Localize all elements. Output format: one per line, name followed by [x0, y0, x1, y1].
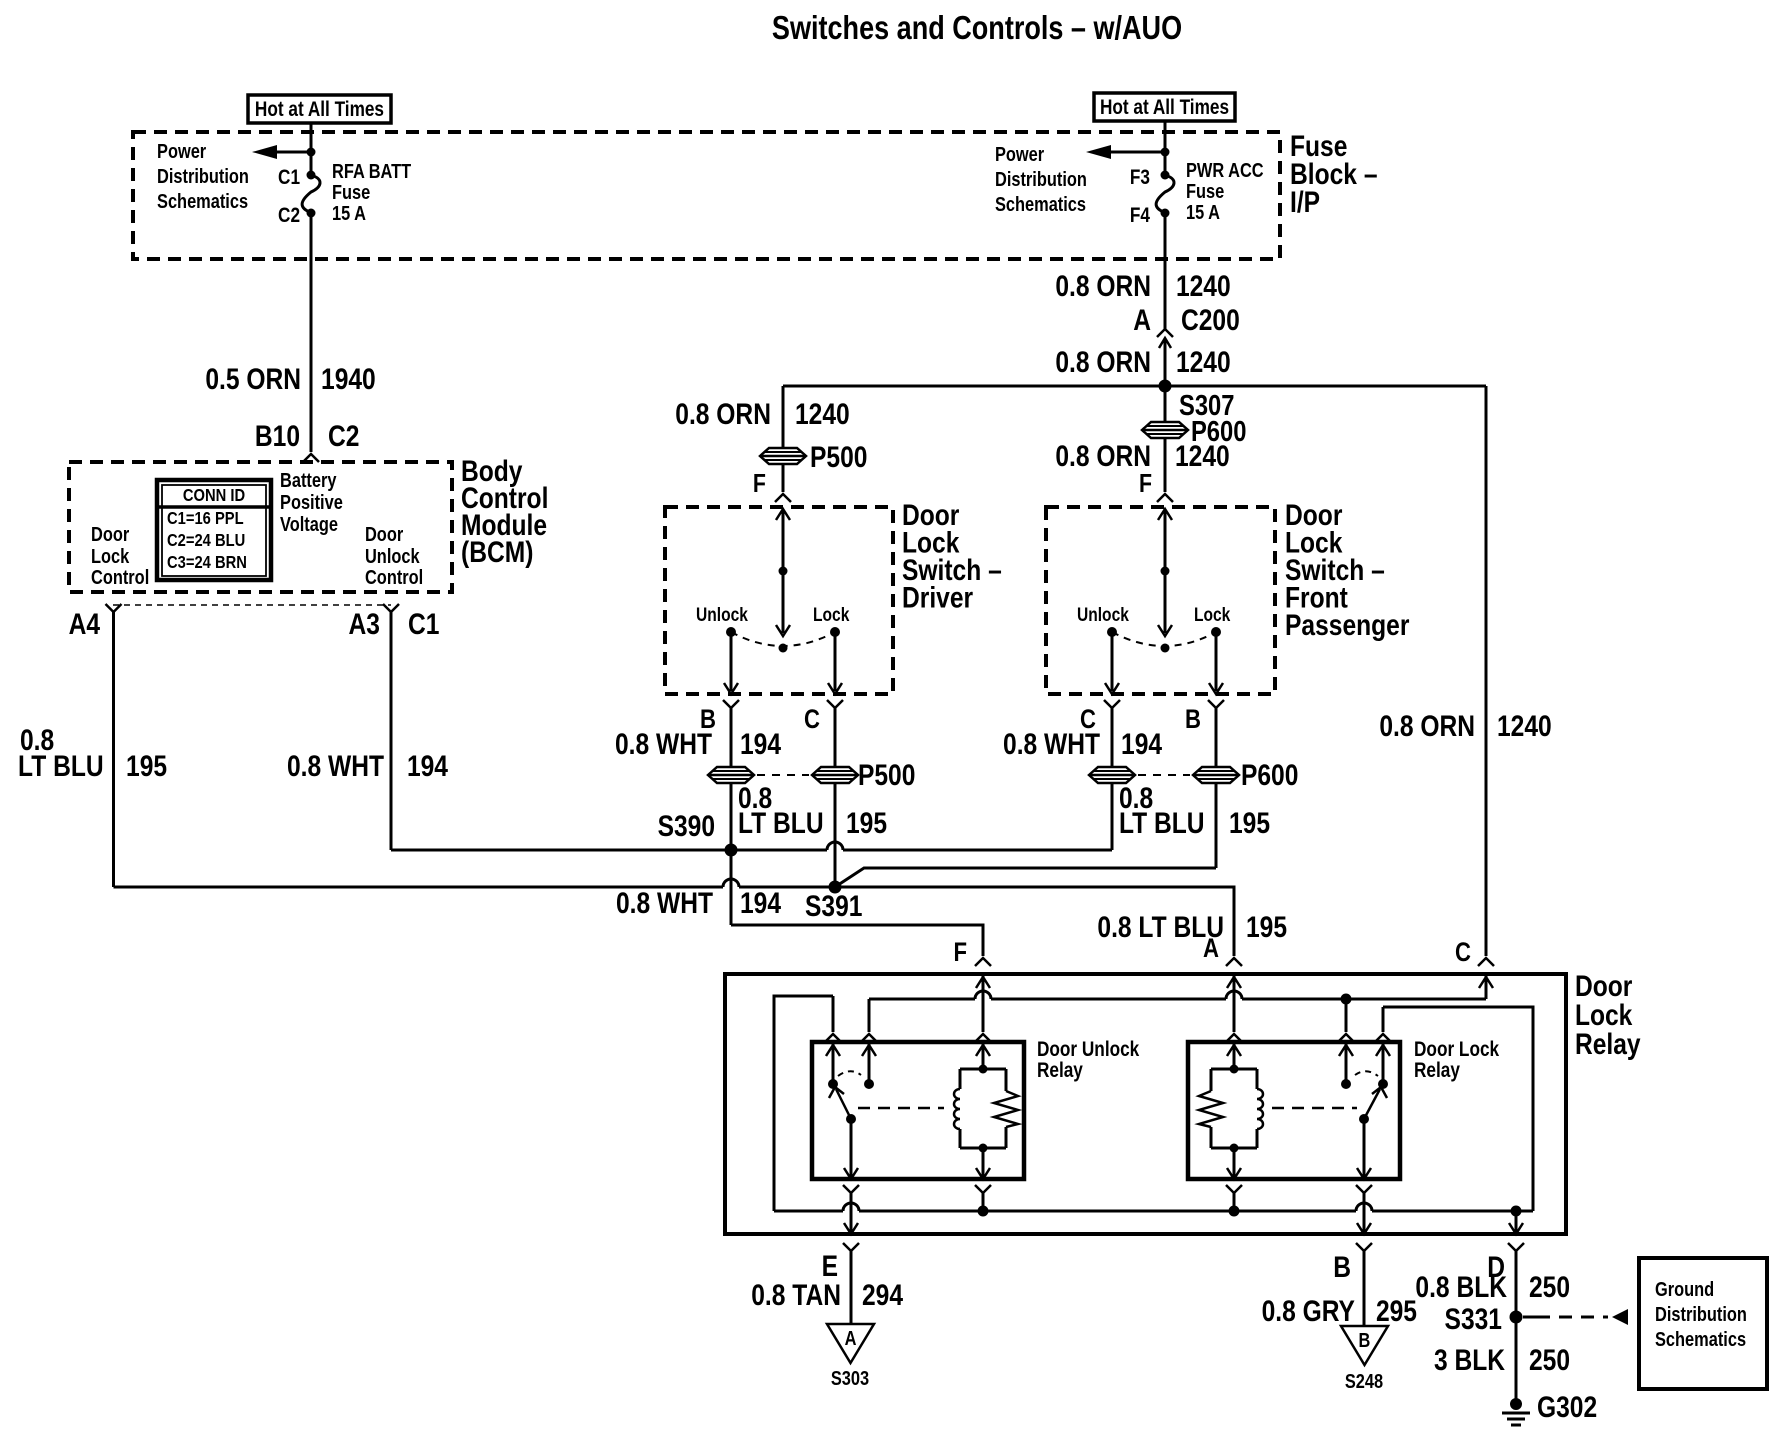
svg-text:LT BLU: LT BLU — [738, 806, 824, 840]
svg-text:0.8 ORN: 0.8 ORN — [1055, 269, 1151, 303]
svg-text:Unlock: Unlock — [365, 544, 420, 567]
driver lock exit fork — [827, 700, 843, 708]
connector chevron B10 — [303, 454, 319, 462]
lock coil to bus2 — [1226, 1148, 1242, 1217]
wire S391 to relay A — [835, 887, 1234, 956]
label 0.8 TAN 294 — [751, 1278, 903, 1312]
svg-text:I/P: I/P — [1290, 185, 1320, 219]
wire driver B down — [730, 708, 733, 767]
svg-text:0.8 ORN: 0.8 ORN — [675, 397, 771, 431]
label door unlock relay — [1037, 1039, 1140, 1083]
wire passenger C down — [1111, 708, 1114, 767]
svg-text:F: F — [1139, 469, 1152, 499]
ground G302 — [1502, 1390, 1597, 1425]
svg-text:S391: S391 — [805, 889, 862, 923]
svg-text:0.8 ORN: 0.8 ORN — [1055, 345, 1151, 379]
wire C200 to S307 — [1164, 338, 1167, 386]
lock common down — [1356, 1119, 1372, 1234]
unlock NO contact entry — [862, 1042, 876, 1089]
svg-text:C1: C1 — [408, 607, 439, 641]
ground loop branch lock pivot — [1375, 1007, 1391, 1042]
svg-text:Control: Control — [91, 565, 149, 588]
svg-text:Battery: Battery — [280, 468, 337, 491]
svg-text:Distribution: Distribution — [995, 167, 1087, 190]
driver unlock exit fork — [723, 700, 739, 708]
connector chevron relay F — [975, 958, 991, 966]
svg-text:S331: S331 — [1445, 1302, 1502, 1336]
body control module dashed box — [69, 462, 452, 592]
svg-text:Fuse: Fuse — [332, 180, 370, 203]
lock switch arm — [1359, 1087, 1387, 1124]
svg-text:RFA BATT: RFA BATT — [332, 159, 411, 182]
power distribution schematics text right — [995, 142, 1087, 215]
svg-text:Door: Door — [91, 522, 129, 545]
relay F entry — [975, 974, 991, 1042]
label 0.5 ORN 1940 — [205, 362, 375, 396]
wire net194 up to passenger C — [1111, 783, 1114, 850]
svg-text:Schematics: Schematics — [1655, 1327, 1746, 1350]
wire P500 to driver switch F — [782, 464, 785, 492]
junction S391 — [805, 881, 862, 923]
svg-text:A: A — [845, 1326, 857, 1349]
relay A entry — [1226, 974, 1242, 1042]
svg-text:3 BLK: 3 BLK — [1434, 1343, 1505, 1377]
label door lock switch front passenger — [1285, 498, 1410, 642]
unlock coil to bus2 — [975, 1148, 991, 1217]
wire driver C to S391 — [834, 783, 837, 887]
svg-text:Lock: Lock — [91, 544, 130, 567]
svg-text:(BCM): (BCM) — [461, 535, 533, 569]
fuse PWR ACC 15A — [1130, 158, 1264, 227]
wire D output — [1515, 1251, 1518, 1400]
passenger switch contacts — [1107, 627, 1221, 653]
label E — [822, 1249, 838, 1283]
passenger switch common arm — [1158, 509, 1172, 636]
label 0.8 ORN 1240 mid — [1055, 345, 1230, 379]
wire hot box to fuse F3 — [1164, 121, 1167, 175]
svg-text:A: A — [1203, 934, 1219, 964]
label 0.8 LT BLU 195 passenger — [1119, 781, 1270, 840]
label B10 C2 — [255, 419, 360, 453]
label 0.8 LT BLU 195 driver — [738, 781, 887, 840]
passenger unlock exit fork — [1104, 700, 1120, 708]
arrow to power distribution left — [252, 145, 316, 159]
connector P600 inline — [1142, 415, 1246, 448]
svg-text:Door: Door — [365, 522, 403, 545]
svg-text:B: B — [1185, 705, 1201, 735]
power distribution schematics text left — [157, 139, 249, 212]
label door lock relay outer — [1575, 969, 1641, 1061]
label 0.8 GRY 295 — [1262, 1294, 1417, 1328]
text lock passenger — [1194, 604, 1231, 626]
label F driver — [753, 469, 766, 499]
connector P600 passenger C — [1089, 767, 1135, 783]
wire fuse F4 down to C200 — [1164, 213, 1167, 329]
ground distribution schematics box — [1639, 1258, 1767, 1389]
lock relay mech link — [1272, 1107, 1357, 1110]
junction S390 — [658, 809, 738, 857]
svg-text:B10: B10 — [255, 419, 300, 453]
svg-text:PWR ACC: PWR ACC — [1186, 158, 1264, 181]
wire driver B to S390 — [730, 783, 733, 850]
splice symbol S248 — [1341, 1326, 1388, 1392]
svg-text:Power: Power — [157, 139, 206, 162]
arrow to power distribution right — [1086, 145, 1170, 159]
svg-text:Voltage: Voltage — [280, 512, 338, 535]
fuse block I/P dashed box — [133, 132, 1280, 259]
svg-text:Positive: Positive — [280, 490, 343, 513]
label 0.8 LT BLU 195 relay A — [1097, 910, 1287, 944]
connector fork A4 — [106, 604, 122, 612]
label 0.8 WHT 194 passenger — [1003, 727, 1163, 761]
wire B output — [1363, 1251, 1366, 1326]
text unlock passenger — [1077, 604, 1129, 626]
svg-text:S390: S390 — [658, 809, 715, 843]
svg-text:Power: Power — [995, 142, 1044, 165]
svg-text:250: 250 — [1529, 1270, 1570, 1304]
svg-text:C3=24 BRN: C3=24 BRN — [167, 553, 247, 573]
door lock relay outer box — [725, 974, 1566, 1234]
hot at all times box left — [248, 95, 391, 123]
relay ground loop right — [1383, 1007, 1533, 1211]
lock coil entry — [1227, 1042, 1241, 1074]
lock pivot entry — [1376, 1042, 1390, 1089]
svg-text:A3: A3 — [349, 607, 380, 641]
connector P600 passenger B — [1193, 767, 1239, 783]
svg-text:G302: G302 — [1537, 1390, 1597, 1424]
svg-text:Ground: Ground — [1655, 1277, 1714, 1300]
driver lock contact wire — [828, 632, 842, 694]
svg-text:F: F — [753, 469, 766, 499]
label A relay — [1203, 934, 1219, 964]
relay bus2 ground — [774, 1203, 1533, 1211]
connector C200 — [1157, 329, 1173, 348]
svg-text:Hot at All Times: Hot at All Times — [1100, 97, 1229, 120]
svg-text:CONN ID: CONN ID — [183, 486, 245, 506]
svg-text:F4: F4 — [1130, 205, 1150, 228]
label 0.8 WHT 194 lower — [616, 886, 782, 920]
svg-text:0.8 GRY: 0.8 GRY — [1262, 1294, 1355, 1328]
relay C entry — [1479, 974, 1493, 999]
label door lock relay inner — [1414, 1039, 1499, 1083]
svg-text:P500: P500 — [810, 440, 867, 474]
label B driver — [700, 705, 716, 735]
unlock pivot entry — [826, 1042, 840, 1089]
label 3 BLK 250 — [1434, 1343, 1570, 1377]
svg-text:C2=24 BLU: C2=24 BLU — [167, 531, 245, 551]
svg-text:S303: S303 — [831, 1366, 869, 1389]
P500 dashed link — [757, 758, 915, 792]
unlock switch arm — [829, 1087, 856, 1124]
svg-text:B: B — [1359, 1328, 1371, 1351]
svg-text:1940: 1940 — [321, 362, 376, 396]
wire passenger B down — [1215, 708, 1218, 767]
label 0.8 ORN 1240 driver — [675, 397, 849, 431]
label F passenger — [1139, 469, 1152, 499]
text door unlock control — [365, 522, 423, 588]
wire net194 segment1 — [391, 849, 827, 852]
svg-text:1240: 1240 — [1176, 345, 1231, 379]
junction S331 — [1445, 1302, 1523, 1336]
svg-text:195: 195 — [126, 749, 167, 783]
bus1 branch to lock NO contact — [1338, 999, 1354, 1042]
svg-text:194: 194 — [1121, 727, 1163, 761]
connector chevron relay A — [1226, 958, 1242, 966]
svg-text:15 A: 15 A — [332, 201, 366, 224]
svg-text:Unlock: Unlock — [696, 604, 748, 626]
wire S390 down — [730, 850, 733, 925]
svg-text:Door Unlock: Door Unlock — [1037, 1039, 1140, 1062]
svg-text:Lock: Lock — [1194, 604, 1231, 626]
svg-text:194: 194 — [740, 727, 782, 761]
wire A3 down — [390, 612, 393, 850]
svg-text:F: F — [954, 938, 968, 968]
svg-text:C: C — [1455, 938, 1471, 968]
label 0.8 BLK 250 — [1415, 1270, 1570, 1304]
relay ground loop left — [774, 996, 833, 1211]
svg-text:Hot at All Times: Hot at All Times — [255, 99, 384, 122]
svg-text:195: 195 — [1229, 806, 1270, 840]
connector fork A3 — [383, 604, 399, 612]
label A C200 — [1133, 303, 1239, 337]
connector chevron F driver — [775, 494, 791, 502]
label A3 C1 — [349, 607, 440, 641]
connector P500 driver C — [812, 767, 858, 783]
svg-text:Schematics: Schematics — [995, 192, 1086, 215]
driver unlock contact wire — [724, 632, 738, 694]
svg-text:0.8 ORN: 0.8 ORN — [1055, 439, 1151, 473]
passenger unlock contact wire — [1105, 632, 1119, 694]
hop over lock wire — [827, 842, 843, 850]
svg-text:Relay: Relay — [1575, 1027, 1641, 1061]
lock NO contact entry — [1339, 1042, 1353, 1089]
svg-text:C2: C2 — [278, 205, 300, 228]
door lock switch passenger dashed box — [1046, 507, 1275, 694]
ground loop branch unlock pivot — [825, 996, 841, 1042]
unlock relay mech link — [858, 1107, 944, 1110]
wire S390 to relay F — [731, 925, 983, 956]
label 0.8 ORN 1240 upper — [1055, 269, 1230, 303]
wire net195 to S391 — [739, 886, 835, 889]
unlock output through box — [843, 1223, 859, 1251]
wire right drop to door lock relay C — [1485, 386, 1488, 956]
label 0.8 WHT 194 driver — [615, 727, 782, 761]
label B passenger — [1185, 705, 1201, 735]
wire A4 down — [112, 612, 115, 887]
svg-text:Distribution: Distribution — [157, 164, 249, 187]
svg-text:Relay: Relay — [1414, 1060, 1460, 1083]
svg-text:C1=16 PPL: C1=16 PPL — [167, 509, 244, 529]
unlock switch motion arc — [838, 1071, 861, 1076]
wire E output — [850, 1251, 853, 1324]
label D output — [1487, 1250, 1505, 1284]
unlock coil — [954, 1069, 1018, 1153]
dashed reference arrow — [1523, 1309, 1628, 1325]
svg-text:195: 195 — [1246, 910, 1287, 944]
svg-text:C: C — [804, 705, 820, 735]
relay bus1 from C — [869, 991, 1486, 1005]
label 0.8 WHT 194 left — [287, 749, 449, 783]
label F relay — [954, 938, 968, 968]
svg-text:Driver: Driver — [902, 580, 973, 614]
svg-text:Distribution: Distribution — [1655, 1302, 1747, 1325]
splice symbol S303 — [827, 1324, 874, 1389]
svg-text:Door Lock: Door Lock — [1414, 1039, 1499, 1062]
svg-text:B: B — [1333, 1250, 1351, 1284]
svg-text:P600: P600 — [1241, 758, 1298, 792]
door lock switch driver dashed box — [665, 507, 893, 694]
svg-text:F3: F3 — [1130, 167, 1150, 190]
text door lock control — [91, 522, 149, 588]
wire P600 to passenger switch F — [1164, 438, 1167, 492]
svg-text:15 A: 15 A — [1186, 200, 1220, 223]
junction S307 — [1159, 380, 1235, 422]
svg-text:LT BLU: LT BLU — [1119, 806, 1205, 840]
passenger lock exit fork — [1208, 700, 1224, 708]
svg-text:0.8 WHT: 0.8 WHT — [1003, 727, 1100, 761]
bus2 D branch — [1508, 1206, 1524, 1252]
svg-text:295: 295 — [1376, 1294, 1417, 1328]
label C driver — [804, 705, 820, 735]
svg-text:Unlock: Unlock — [1077, 604, 1129, 626]
bus1 branch to unlock NO contact — [861, 999, 877, 1042]
hot at all times box right — [1094, 93, 1235, 121]
connector chevron relay C — [1478, 958, 1494, 966]
driver switch common arm — [776, 509, 790, 636]
svg-text:0.8 WHT: 0.8 WHT — [287, 749, 384, 783]
svg-text:A4: A4 — [69, 607, 101, 641]
passenger lock contact wire — [1209, 632, 1223, 694]
hop over S390 drop — [723, 879, 739, 887]
svg-text:0.8 TAN: 0.8 TAN — [751, 1278, 841, 1312]
svg-text:C200: C200 — [1181, 303, 1240, 337]
wire driver C down — [834, 708, 837, 767]
BCM bottom connector dashed line — [113, 604, 391, 606]
wire S307 to P600 — [1164, 386, 1167, 421]
svg-text:Switches and Controls – w/AUO: Switches and Controls – w/AUO — [772, 11, 1182, 47]
svg-text:0.8 WHT: 0.8 WHT — [616, 886, 713, 920]
wire up to passenger B — [1215, 783, 1218, 868]
svg-text:0.8 ORN: 0.8 ORN — [1379, 709, 1475, 743]
svg-text:250: 250 — [1529, 1343, 1570, 1377]
svg-text:195: 195 — [846, 806, 887, 840]
svg-text:1240: 1240 — [795, 397, 850, 431]
wire hot box to fuse C1 — [310, 123, 313, 175]
svg-text:194: 194 — [740, 886, 782, 920]
door unlock relay box — [812, 1042, 1024, 1179]
connector P500 inline — [760, 440, 867, 474]
wire fuse C2 down to BCM B10 — [310, 213, 313, 452]
svg-text:P500: P500 — [858, 758, 915, 792]
lock coil — [1199, 1069, 1263, 1153]
svg-text:S248: S248 — [1345, 1369, 1383, 1392]
label door lock switch driver — [902, 498, 1002, 614]
lock switch motion arc — [1355, 1071, 1378, 1076]
svg-text:0.8 WHT: 0.8 WHT — [615, 727, 712, 761]
svg-text:Fuse: Fuse — [1186, 179, 1224, 202]
svg-text:194: 194 — [407, 749, 449, 783]
svg-text:294: 294 — [862, 1278, 904, 1312]
label 0.8 ORN 1240 right — [1379, 709, 1551, 743]
svg-text:C2: C2 — [328, 419, 359, 453]
fuse RFA BATT 15A — [278, 159, 411, 227]
text battery positive voltage — [280, 468, 343, 535]
svg-text:Schematics: Schematics — [157, 189, 248, 212]
svg-text:Lock: Lock — [813, 604, 850, 626]
unlock common down — [843, 1119, 859, 1234]
label 0.8 ORN 1240 passenger — [1055, 439, 1229, 473]
unlock coil entry — [976, 1042, 990, 1074]
lock output through box — [1356, 1223, 1372, 1251]
svg-text:C1: C1 — [278, 167, 300, 190]
connector P500 driver B — [708, 767, 754, 783]
conn id table — [157, 480, 271, 580]
label B output — [1333, 1250, 1351, 1284]
wire S307 horizontal bus — [783, 385, 1486, 388]
P600 dashed link — [1138, 758, 1298, 792]
driver switch contacts — [726, 627, 840, 653]
svg-text:1240: 1240 — [1175, 439, 1230, 473]
label Body Control Module BCM — [461, 454, 548, 569]
text lock driver — [813, 604, 850, 626]
title — [772, 11, 1182, 47]
svg-text:1240: 1240 — [1497, 709, 1552, 743]
door lock relay box — [1188, 1042, 1400, 1179]
connector chevron F passenger — [1157, 494, 1173, 502]
label C relay — [1455, 938, 1471, 968]
svg-text:LT BLU: LT BLU — [18, 749, 104, 783]
label Fuse Block - I/P — [1290, 129, 1377, 219]
svg-text:Passenger: Passenger — [1285, 608, 1410, 642]
label A4 — [69, 607, 101, 641]
svg-text:A: A — [1133, 303, 1151, 337]
text unlock driver — [696, 604, 748, 626]
svg-text:Control: Control — [365, 565, 423, 588]
wire net194 segment2 — [843, 849, 1112, 852]
label C passenger — [1080, 705, 1096, 735]
wire A4 net right segment — [114, 886, 724, 889]
svg-text:Relay: Relay — [1037, 1060, 1083, 1083]
svg-text:0.8 BLK: 0.8 BLK — [1415, 1270, 1507, 1304]
svg-text:0.5 ORN: 0.5 ORN — [205, 362, 301, 396]
wire to driver P500 — [782, 386, 785, 448]
wire S391 diagonal — [835, 868, 1216, 887]
label 0.8 LT BLU 195 left — [18, 723, 167, 783]
svg-text:1240: 1240 — [1176, 269, 1231, 303]
